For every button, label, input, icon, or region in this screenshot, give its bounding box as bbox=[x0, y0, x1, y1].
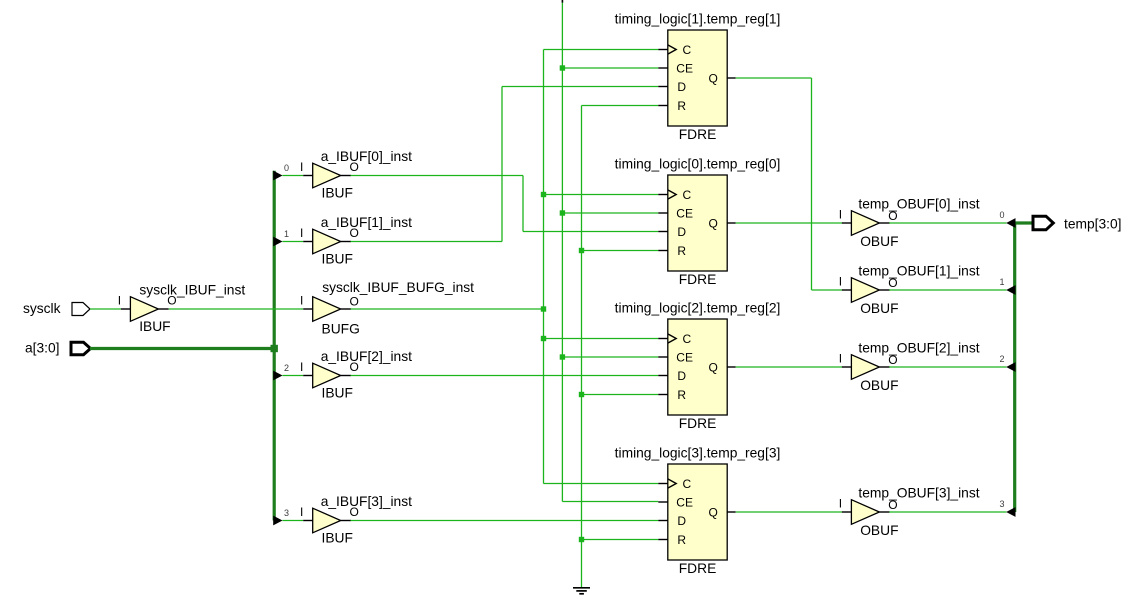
clock branch to temp_reg[1] C bbox=[544, 49, 659, 51]
wire temp[0] from OBUF[0] output to bus ripper bbox=[889, 222, 1006, 224]
flip-flop timing_logic[0].temp_reg[0] pin Q bbox=[709, 217, 736, 231]
wire temp[3] from OBUF[3] output to bus ripper bbox=[889, 511, 1006, 513]
buffer a_IBUF[1]_inst output pin O bbox=[341, 226, 359, 241]
svg-text:timing_logic[1].temp_reg[1]: timing_logic[1].temp_reg[1] bbox=[615, 12, 781, 27]
svg-text:R: R bbox=[677, 388, 686, 402]
bus ripper a[2] bbox=[273, 363, 289, 381]
svg-text:IBUF: IBUF bbox=[322, 531, 353, 546]
svg-text:a_IBUF[2]_inst: a_IBUF[2]_inst bbox=[321, 349, 412, 364]
CE branch to temp_reg[0] CE bbox=[562, 212, 658, 214]
clock branch to temp_reg[0] C bbox=[544, 194, 659, 196]
net a_IBUF[0]: horizontal into temp_reg[0] D bbox=[523, 231, 658, 233]
flip-flop timing_logic[1].temp_reg[1] pin C (clock) with chevron bbox=[658, 43, 691, 57]
flip-flop timing_logic[0].temp_reg[0] pin CE bbox=[658, 207, 693, 221]
net a_IBUF[1]: horizontal from IBUF[1] output bbox=[351, 241, 503, 243]
wire temp[1] from OBUF[1] output to bus ripper bbox=[889, 289, 1006, 291]
buffer sysclk_IBUF_BUFG_inst symbol bbox=[313, 297, 341, 322]
flip-flop timing_logic[2].temp_reg[2] pin Q bbox=[709, 361, 736, 375]
flip-flop U_temp_reg2 timing_logic[2].temp_reg[2] body bbox=[668, 319, 727, 415]
buffer a_IBUF[3]_inst symbol bbox=[313, 508, 341, 533]
flip-flop timing_logic[3].temp_reg[3] pin C (clock) with chevron bbox=[658, 477, 691, 491]
wire a[2] from ripper to IBUF input bbox=[282, 375, 303, 377]
input port sysclk bbox=[23, 301, 90, 316]
buffer sysclk_IBUF_inst symbol bbox=[130, 297, 158, 322]
svg-text:OBUF: OBUF bbox=[860, 378, 898, 393]
svg-text:sysclk_IBUF_BUFG_inst: sysclk_IBUF_BUFG_inst bbox=[322, 280, 474, 295]
svg-text:IBUF: IBUF bbox=[322, 186, 353, 201]
buffer sysclk_IBUF_BUFG_inst input pin I bbox=[300, 293, 313, 309]
buffer temp_OBUF[3]_inst symbol bbox=[851, 500, 879, 525]
svg-text:a_IBUF[0]_inst: a_IBUF[0]_inst bbox=[321, 149, 412, 164]
CE branch to temp_reg[1] CE bbox=[562, 67, 658, 69]
net temp_OBUF[1]: temp_reg[1] Q rightward bbox=[736, 77, 812, 79]
flip-flop timing_logic[3].temp_reg[3] pin CE bbox=[658, 496, 693, 510]
bus ripper temp[3] bbox=[999, 499, 1015, 517]
net temp_OBUF[3]: temp_reg[3] Q to OBUF[3] bbox=[736, 511, 843, 513]
flip-flop U_temp_reg3 timing_logic[3].temp_reg[3] body bbox=[668, 464, 727, 560]
svg-text:2: 2 bbox=[999, 354, 1004, 364]
svg-text:0: 0 bbox=[284, 163, 289, 173]
svg-text:R: R bbox=[677, 99, 686, 113]
buffer temp_OBUF[0]_inst input pin I bbox=[839, 207, 852, 223]
flip-flop timing_logic[0].temp_reg[0] pin C (clock) with chevron bbox=[658, 188, 691, 202]
svg-text:I: I bbox=[300, 505, 303, 519]
R branch to temp_reg[3] R bbox=[582, 539, 659, 541]
flip-flop U_temp_reg1 timing_logic[1].temp_reg[1] body bbox=[668, 30, 727, 126]
svg-text:I: I bbox=[118, 293, 121, 307]
buffer a_IBUF[3]_inst input pin I bbox=[300, 505, 313, 521]
svg-text:FDRE: FDRE bbox=[679, 561, 717, 576]
svg-text:timing_logic[3].temp_reg[3]: timing_logic[3].temp_reg[3] bbox=[615, 446, 781, 461]
wire temp[2] from OBUF[2] output to bus ripper bbox=[889, 366, 1006, 368]
net temp_OBUF[0]: temp_reg[0] Q to OBUF[0] bbox=[736, 222, 843, 224]
buffer a_IBUF[1]_inst symbol bbox=[313, 229, 341, 254]
svg-text:1: 1 bbox=[999, 277, 1004, 287]
net a_IBUF[0]: horizontal from IBUF[0] output bbox=[351, 175, 524, 177]
svg-text:D: D bbox=[677, 225, 686, 239]
wire sysclk_IBUF net from IBUF output to BUFG input bbox=[169, 308, 303, 310]
svg-text:D: D bbox=[677, 80, 686, 94]
svg-text:D: D bbox=[677, 369, 686, 383]
svg-text:IBUF: IBUF bbox=[322, 252, 353, 267]
R junction at temp_reg[0] bbox=[579, 248, 584, 253]
svg-text:FDRE: FDRE bbox=[679, 416, 717, 431]
CE net vertical trunk bbox=[561, 3, 563, 502]
buffer sysclk_IBUF_BUFG_inst output pin O bbox=[341, 295, 359, 309]
buffer temp_OBUF[0]_inst symbol bbox=[851, 211, 879, 236]
bus a[3:0] vertical trunk bbox=[273, 171, 276, 521]
buffer a_IBUF[0]_inst symbol bbox=[313, 163, 341, 188]
clock branch to temp_reg[3] C bbox=[544, 483, 659, 485]
flip-flop timing_logic[2].temp_reg[2] pin CE bbox=[658, 351, 693, 365]
flip-flop timing_logic[2].temp_reg[2] pin C (clock) with chevron bbox=[658, 332, 691, 346]
svg-text:D: D bbox=[677, 514, 686, 528]
svg-text:temp_OBUF[1]_inst: temp_OBUF[1]_inst bbox=[858, 264, 979, 279]
flip-flop timing_logic[3].temp_reg[3] pin Q bbox=[709, 506, 736, 520]
svg-text:I: I bbox=[300, 293, 303, 307]
CE junction at temp_reg[0] bbox=[560, 210, 565, 215]
svg-text:I: I bbox=[300, 226, 303, 240]
flip-flop timing_logic[1].temp_reg[1] pin D bbox=[658, 80, 686, 94]
svg-text:a_IBUF[1]_inst: a_IBUF[1]_inst bbox=[321, 215, 412, 230]
svg-text:temp_OBUF[2]_inst: temp_OBUF[2]_inst bbox=[858, 341, 979, 356]
svg-text:O: O bbox=[350, 295, 359, 309]
svg-text:C: C bbox=[683, 43, 692, 57]
bus junction at a[3:0] entry bbox=[271, 345, 278, 352]
ground symbol bbox=[573, 588, 590, 594]
svg-text:BUFG: BUFG bbox=[322, 322, 360, 337]
flip-flop timing_logic[1].temp_reg[1] pin Q bbox=[709, 72, 736, 86]
svg-text:3: 3 bbox=[999, 499, 1004, 509]
buffer a_IBUF[0]_inst input pin I bbox=[300, 160, 313, 176]
CE junction at temp_reg[2] bbox=[560, 354, 565, 359]
clock junction at temp_reg[0] C branch bbox=[541, 192, 546, 197]
svg-text:I: I bbox=[839, 351, 842, 365]
buffer temp_OBUF[3]_inst input pin I bbox=[839, 496, 852, 512]
svg-text:FDRE: FDRE bbox=[679, 272, 717, 287]
flip-flop timing_logic[2].temp_reg[2] pin R bbox=[658, 388, 686, 402]
flip-flop U_temp_reg0 timing_logic[0].temp_reg[0] body bbox=[668, 175, 727, 271]
buffer temp_OBUF[1]_inst symbol bbox=[851, 278, 879, 303]
output bus port temp[3:0] bbox=[1033, 216, 1122, 231]
net a_IBUF[3]: straight into temp_reg[3] D bbox=[351, 520, 659, 522]
svg-text:temp[3:0]: temp[3:0] bbox=[1064, 216, 1122, 231]
net a_IBUF[1]: horizontal into temp_reg[1] D bbox=[502, 86, 658, 88]
svg-text:OBUF: OBUF bbox=[860, 523, 898, 538]
flip-flop timing_logic[1].temp_reg[1] pin R bbox=[658, 99, 686, 113]
net temp_OBUF[1]: into OBUF[1] input bbox=[812, 289, 843, 291]
net temp_OBUF[1]: vertical down to OBUF[1] row bbox=[811, 78, 813, 290]
bus temp[3:0] vertical trunk bbox=[1013, 223, 1016, 512]
net a_IBUF[1]: vertical jog up bbox=[501, 87, 503, 242]
clock trunk vertical bbox=[543, 50, 545, 484]
svg-text:timing_logic[2].temp_reg[2]: timing_logic[2].temp_reg[2] bbox=[615, 301, 781, 316]
R junction at temp_reg[3] bbox=[579, 537, 584, 542]
svg-text:OBUF: OBUF bbox=[860, 301, 898, 316]
buffer a_IBUF[0]_inst output pin O bbox=[341, 160, 359, 175]
svg-text:CE: CE bbox=[676, 351, 693, 365]
flip-flop timing_logic[2].temp_reg[2] pin D bbox=[658, 369, 686, 383]
buffer temp_OBUF[2]_inst input pin I bbox=[839, 351, 852, 367]
svg-text:temp_OBUF[0]_inst: temp_OBUF[0]_inst bbox=[858, 197, 979, 212]
buffer a_IBUF[2]_inst output pin O bbox=[341, 360, 359, 375]
wire a[1] from ripper to IBUF input bbox=[282, 241, 303, 243]
net a_IBUF[2]: straight into temp_reg[2] D bbox=[351, 375, 659, 377]
buffer a_IBUF[2]_inst input pin I bbox=[300, 360, 313, 376]
svg-text:CE: CE bbox=[676, 62, 693, 76]
buffer sysclk_IBUF_inst output pin O bbox=[158, 294, 176, 309]
svg-text:IBUF: IBUF bbox=[139, 319, 170, 334]
flip-flop timing_logic[0].temp_reg[0] pin D bbox=[658, 225, 686, 239]
flip-flop timing_logic[1].temp_reg[1] pin CE bbox=[658, 62, 693, 76]
svg-text:I: I bbox=[300, 160, 303, 174]
svg-text:C: C bbox=[683, 477, 692, 491]
buffer temp_OBUF[1]_inst output pin O bbox=[879, 276, 897, 290]
svg-text:IBUF: IBUF bbox=[322, 386, 353, 401]
clock junction at BUFG output bbox=[541, 306, 546, 311]
svg-text:I: I bbox=[300, 360, 303, 374]
flip-flop timing_logic[0].temp_reg[0] pin R bbox=[658, 244, 686, 258]
input bus port a[3:0] bbox=[25, 341, 91, 356]
buffer temp_OBUF[0]_inst output pin O bbox=[879, 209, 897, 223]
CE branch to temp_reg[3] CE bbox=[562, 501, 658, 503]
svg-text:2: 2 bbox=[284, 363, 289, 373]
svg-text:C: C bbox=[683, 332, 692, 346]
net a_IBUF[0]: vertical jog down bbox=[522, 176, 524, 232]
svg-text:a[3:0]: a[3:0] bbox=[25, 341, 60, 356]
bus ripper a[1] bbox=[273, 229, 289, 247]
svg-text:CE: CE bbox=[676, 207, 693, 221]
svg-text:1: 1 bbox=[284, 229, 289, 239]
buffer temp_OBUF[1]_inst input pin I bbox=[839, 274, 852, 290]
svg-text:sysclk_IBUF_inst: sysclk_IBUF_inst bbox=[139, 283, 245, 298]
svg-text:0: 0 bbox=[999, 210, 1004, 220]
flip-flop timing_logic[3].temp_reg[3] pin R bbox=[658, 533, 686, 547]
svg-text:Q: Q bbox=[709, 217, 718, 231]
net temp_OBUF[2]: temp_reg[2] Q to OBUF[2] bbox=[736, 366, 843, 368]
svg-text:I: I bbox=[839, 496, 842, 510]
svg-text:a_IBUF[3]_inst: a_IBUF[3]_inst bbox=[321, 494, 412, 509]
R branch to temp_reg[1] R bbox=[582, 105, 659, 107]
bus ripper a[3] bbox=[273, 508, 289, 526]
svg-text:Q: Q bbox=[709, 361, 718, 375]
svg-text:timing_logic[0].temp_reg[0]: timing_logic[0].temp_reg[0] bbox=[615, 157, 781, 172]
svg-text:Q: Q bbox=[709, 506, 718, 520]
buffer temp_OBUF[3]_inst output pin O bbox=[879, 498, 897, 512]
R net vertical trunk to ground bbox=[581, 106, 583, 588]
bus ripper temp[2] bbox=[999, 354, 1015, 372]
svg-text:R: R bbox=[677, 533, 686, 547]
svg-text:C: C bbox=[683, 188, 692, 202]
bus ripper a[0] bbox=[273, 163, 289, 181]
buffer a_IBUF[1]_inst input pin I bbox=[300, 226, 313, 242]
svg-text:sysclk: sysclk bbox=[23, 301, 61, 316]
svg-text:Q: Q bbox=[709, 72, 718, 86]
R branch to temp_reg[2] R bbox=[582, 394, 659, 396]
wire a[3] from ripper to IBUF input bbox=[282, 520, 303, 522]
CE net stub to sheet top bbox=[561, 0, 563, 3]
bus temp[3:0] horizontal to output port bbox=[1013, 221, 1033, 224]
R branch to temp_reg[0] R bbox=[582, 250, 659, 252]
clock junction at temp_reg[2] C branch bbox=[541, 336, 546, 341]
CE junction at temp_reg[1] bbox=[560, 65, 565, 70]
svg-text:FDRE: FDRE bbox=[679, 127, 717, 142]
net sysclk_IBUF_BUFG: BUFG output to clock trunk bbox=[351, 308, 544, 310]
svg-text:R: R bbox=[677, 244, 686, 258]
bus ripper temp[0] bbox=[999, 210, 1015, 228]
buffer sysclk_IBUF_inst input pin I bbox=[118, 293, 131, 309]
buffer temp_OBUF[2]_inst symbol bbox=[851, 355, 879, 380]
buffer a_IBUF[2]_inst symbol bbox=[313, 363, 341, 388]
clock branch to temp_reg[2] C bbox=[544, 338, 659, 340]
svg-text:I: I bbox=[839, 207, 842, 221]
bus a[3:0] horizontal segment from port bbox=[90, 347, 276, 350]
svg-text:I: I bbox=[839, 274, 842, 288]
svg-text:CE: CE bbox=[676, 496, 693, 510]
buffer temp_OBUF[2]_inst output pin O bbox=[879, 353, 897, 367]
svg-text:OBUF: OBUF bbox=[860, 234, 898, 249]
CE branch to temp_reg[2] CE bbox=[562, 356, 658, 358]
buffer a_IBUF[3]_inst output pin O bbox=[341, 505, 359, 520]
bus ripper temp[1] bbox=[999, 277, 1015, 295]
svg-text:temp_OBUF[3]_inst: temp_OBUF[3]_inst bbox=[858, 486, 979, 501]
svg-text:3: 3 bbox=[284, 508, 289, 518]
wire a[0] from ripper to IBUF input bbox=[282, 175, 303, 177]
R junction at temp_reg[2] bbox=[579, 392, 584, 397]
wire sysclk from port to IBUF input bbox=[90, 308, 121, 310]
flip-flop timing_logic[3].temp_reg[3] pin D bbox=[658, 514, 686, 528]
